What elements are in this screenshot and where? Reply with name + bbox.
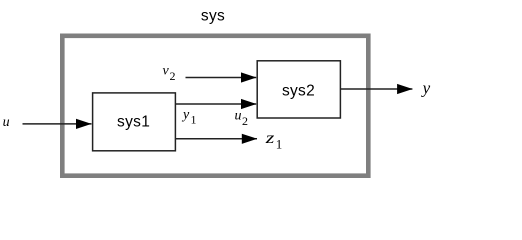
wire u input [23, 123, 92, 125]
svg-text:1: 1 [276, 137, 283, 152]
svg-text:2: 2 [242, 114, 248, 128]
svg-text:sys2: sys2 [282, 82, 315, 99]
svg-text:2: 2 [170, 69, 176, 83]
svg-text:sys1: sys1 [117, 114, 150, 131]
wire y1 from sys1 to sys2 (u2) [175, 103, 256, 105]
block sys2 [257, 61, 340, 118]
arrowhead z1 [242, 134, 257, 144]
svg-text:v: v [163, 64, 170, 79]
wire y output from sys2 [340, 88, 412, 90]
svg-text:u: u [3, 115, 10, 130]
svg-text:u: u [235, 109, 242, 124]
system boundary box sys [62, 36, 368, 176]
arrowhead v2 into sys2 [241, 72, 256, 82]
arrowhead u2 into sys2 [241, 99, 256, 109]
arrowhead y output [397, 84, 413, 94]
svg-text:z: z [264, 130, 275, 147]
svg-text:sys: sys [201, 8, 225, 25]
wire v2 input [186, 77, 257, 79]
block sys1 [93, 93, 176, 151]
arrowhead u into sys1 [76, 119, 92, 129]
svg-text:y: y [181, 108, 190, 123]
svg-text:1: 1 [191, 112, 197, 126]
wire z1 output from sys1 [175, 138, 257, 140]
svg-text:y: y [421, 79, 431, 98]
